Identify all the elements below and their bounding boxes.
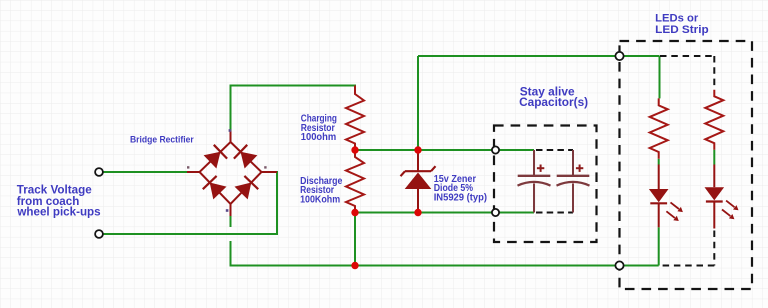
wire LED feed top	[418, 55, 616, 57]
wire bottom rail	[231, 265, 659, 267]
wire track-bottom from terminal	[103, 233, 279, 235]
wire LED feed inside box	[623, 55, 660, 57]
dashed wire to optional LED branch (top)	[660, 55, 714, 57]
wire discharge bottom to ground rail	[354, 213, 356, 266]
wire cap feed bottom stub	[499, 212, 534, 214]
wire LED2 mid net	[713, 150, 715, 165]
junction zener top	[414, 146, 421, 153]
pad LED box bottom	[615, 261, 623, 269]
terminal pad track pickup 1	[95, 168, 103, 176]
bridge pin ac2 (right)	[262, 171, 278, 173]
pad stay-alive top	[492, 146, 499, 153]
svg-text:wheel pick-ups: wheel pick-ups	[16, 205, 100, 219]
wire LED1 mid net	[658, 159, 660, 165]
diode D1 (bridge top-left)	[204, 145, 228, 169]
svg-text:IN5929 (typ): IN5929 (typ)	[434, 193, 487, 204]
dashed wire optional capacitor link (top)	[536, 149, 573, 151]
bridge pin + (top)	[230, 131, 232, 142]
wire lower rail to stay-alive	[355, 212, 492, 214]
svg-text:Bridge Rectifier: Bridge Rectifier	[130, 135, 194, 145]
junction resistors top rail	[351, 146, 358, 153]
svg-text:LED Strip: LED Strip	[655, 24, 709, 36]
wire cap feed top stub	[499, 149, 534, 151]
bridge rectifier B1 outline	[200, 142, 262, 204]
junction bottom rail	[351, 262, 358, 269]
wire track-top from terminal to bridge	[103, 171, 188, 173]
diode D2 (bridge top-right)	[234, 145, 258, 169]
capacitor C2 (stay alive, polarized)	[557, 150, 590, 213]
wire bridge top to charging resistor	[231, 86, 357, 132]
LED D7 (optional branch 2)	[705, 165, 739, 229]
dashed box LEDs / LED strip	[620, 41, 753, 289]
bridge pin mark -	[226, 209, 229, 212]
resistor R3 (LED branch 1)	[650, 98, 668, 158]
wire resistor junction to zener top rail	[355, 149, 492, 151]
bridge pin ac1 (left)	[187, 171, 200, 173]
svg-text:Capacitor(s): Capacitor(s)	[519, 95, 588, 109]
bridge pin mark ac1	[187, 166, 189, 168]
dashed wire optional capacitor link (bottom)	[536, 212, 573, 214]
diode D4 (bridge bottom-right)	[235, 176, 259, 200]
capacitor C1 (stay alive, polarized)	[518, 150, 551, 213]
wire bridge bottom to ground rail	[231, 241, 232, 266]
resistor charging 100ohm	[346, 86, 364, 151]
bridge pin mark +	[229, 129, 232, 132]
bridge pin mark ac2	[264, 166, 266, 168]
bridge pin - (bottom)	[230, 204, 232, 216]
wire LED1 cathode to bottom rail	[658, 227, 660, 265]
diode D3 (bridge bottom-left)	[203, 176, 227, 200]
wire bridge bottom stub	[230, 216, 232, 227]
zener diode D5 15v IN5929	[401, 150, 436, 213]
svg-text:100Kohm: 100Kohm	[300, 194, 340, 205]
wire zener top to LED feed riser	[417, 56, 419, 150]
junction discharge bottom	[351, 209, 358, 216]
junction zener bottom	[414, 209, 421, 216]
resistor discharge 100Kohm	[346, 150, 364, 213]
terminal pad track pickup 2	[95, 230, 103, 238]
wire track-bottom riser to bridge right	[276, 171, 278, 234]
dashed wire optional branch bottom drop	[713, 231, 715, 266]
wire LED branch1 drop	[659, 56, 661, 98]
LED D6 (branch 1)	[649, 165, 683, 228]
dashed box stay-alive capacitors	[494, 126, 597, 243]
resistor R4 (optional LED branch 2)	[705, 90, 723, 150]
dashed wire optional branch to bottom rail	[660, 265, 714, 267]
pad stay-alive bottom	[492, 209, 499, 216]
svg-text:LEDs or: LEDs or	[655, 13, 699, 25]
dashed wire optional branch drop	[713, 56, 715, 87]
pad LED box top	[615, 52, 623, 60]
svg-text:100ohm: 100ohm	[301, 132, 337, 143]
